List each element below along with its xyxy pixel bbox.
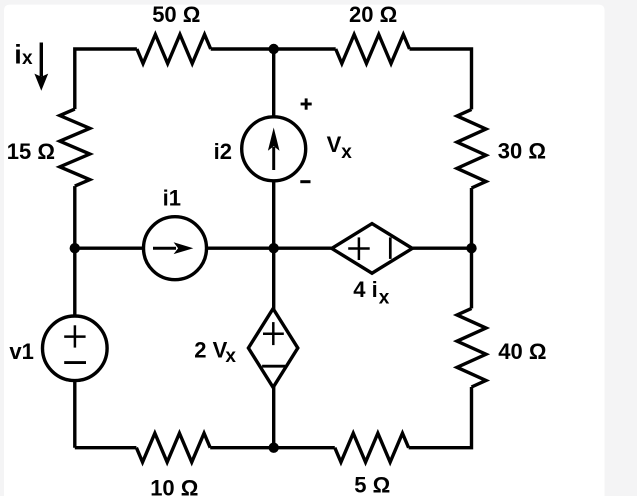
- resistor R 20 ohm (top right horizontal): [336, 35, 410, 64]
- svg-text:10 Ω: 10 Ω: [150, 476, 198, 496]
- wire bottom-left: corner to 10 ohm: [75, 446, 137, 449]
- wire: 4ix diamond to right node: [412, 246, 471, 249]
- resistor R 30 ohm (right vertical upper): [457, 109, 486, 188]
- wire top-left: left corner to 50-ohm resistor: [75, 49, 137, 109]
- resistor R 50 ohm (top left horizontal): [137, 35, 211, 64]
- wire: center node down to 2Vx diamond: [272, 248, 275, 309]
- plus sign of Vx: [301, 98, 312, 109]
- node top middle: [269, 44, 279, 54]
- svg-text:4 i: 4 i: [353, 277, 377, 302]
- voltage source v1 (circle with plus minus): [43, 316, 108, 381]
- wire: 50 ohm to top node: [211, 47, 274, 50]
- svg-text:5 Ω: 5 Ω: [354, 473, 390, 496]
- label 50 ohm: [152, 2, 200, 27]
- resistor R 10 ohm (bottom left horizontal): [136, 433, 210, 462]
- svg-text:30 Ω: 30 Ω: [498, 139, 546, 164]
- svg-text:x: x: [379, 288, 390, 309]
- resistor R 40 ohm (right vertical lower): [457, 308, 486, 387]
- svg-text:x: x: [341, 142, 352, 163]
- wire bottom-right corner: [409, 387, 472, 448]
- wire: left node down to v1: [73, 248, 76, 315]
- dependent source 2 Vx (diamond with plus minus): [248, 309, 297, 388]
- wire: right node to 40 ohm: [470, 248, 473, 308]
- svg-text:15 Ω: 15 Ω: [7, 139, 55, 164]
- svg-text:i1: i1: [163, 185, 181, 210]
- wire: top node to 20 ohm: [274, 47, 336, 50]
- svg-text:20 Ω: 20 Ω: [349, 2, 397, 27]
- current source i2 (circle, arrow up): [242, 117, 306, 181]
- svg-text:i2: i2: [214, 139, 232, 164]
- label i2: [214, 139, 232, 164]
- svg-text:x: x: [225, 346, 236, 367]
- label 10 ohm: [150, 476, 198, 496]
- svg-text:V: V: [327, 132, 342, 157]
- label 20 ohm: [349, 2, 397, 27]
- node right middle: [466, 243, 476, 253]
- wire: bottom node to 5 ohm: [274, 446, 335, 449]
- resistor R 15 ohm (left vertical): [60, 109, 90, 186]
- svg-text:50 Ω: 50 Ω: [152, 2, 200, 27]
- wire: 30 ohm to right-middle node: [470, 188, 473, 248]
- resistor R 5 ohm (bottom right horizontal): [335, 433, 409, 462]
- wire: left node to i1: [75, 246, 143, 249]
- wire: 10 ohm to bottom node: [210, 446, 274, 449]
- wire: i1 to center node: [207, 246, 274, 249]
- svg-text:2 V: 2 V: [194, 338, 227, 363]
- svg-text:v1: v1: [9, 339, 33, 364]
- wire: 2Vx diamond to bottom node: [272, 386, 275, 447]
- dependent source 4 i_x (diamond): [332, 224, 413, 274]
- svg-text:x: x: [22, 48, 33, 69]
- wire: center node to 4ix diamond: [274, 246, 332, 249]
- label 2 Vx: [194, 338, 236, 368]
- label i1: [163, 185, 181, 210]
- arrow i_x (downward): [34, 43, 48, 91]
- wire: v1 to bottom-left corner: [73, 381, 76, 447]
- svg-text:i: i: [14, 39, 22, 69]
- node center: [269, 243, 279, 253]
- wire: 15 ohm to left-middle node: [73, 186, 76, 248]
- label 5 ohm: [354, 473, 390, 496]
- label 4 ix: [353, 277, 390, 309]
- label 30 ohm: [498, 139, 546, 164]
- current source i1 (circle, arrow right): [144, 217, 207, 280]
- wire top-right corner: [410, 49, 472, 109]
- node bottom middle: [269, 443, 279, 453]
- node left middle: [70, 243, 80, 253]
- current label i_x: [14, 39, 33, 69]
- label 40 ohm: [498, 339, 546, 364]
- wire: top node down to i2: [272, 49, 275, 116]
- svg-text:40 Ω: 40 Ω: [498, 339, 546, 364]
- label Vx: [327, 132, 353, 163]
- label 15 ohm: [7, 139, 55, 164]
- wire: i2 to center node: [272, 181, 275, 248]
- minus sign of Vx: [300, 180, 310, 183]
- label v1: [9, 339, 33, 364]
